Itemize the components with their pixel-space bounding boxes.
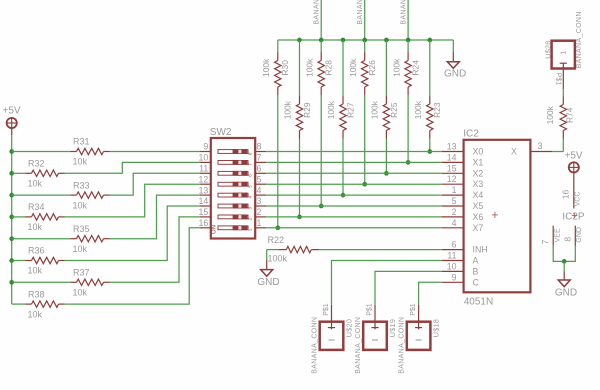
resistor R29	[299, 96, 301, 104]
wire	[12, 281, 71, 283]
svg-text:7: 7	[540, 239, 550, 244]
wire	[385, 139, 387, 174]
svg-text:BANANA_CONN: BANANA_CONN	[357, 0, 364, 25]
wire	[110, 173, 201, 195]
svg-text:C: C	[473, 277, 480, 287]
svg-text:R34: R34	[28, 202, 45, 212]
pin 6	[442, 249, 464, 251]
svg-text:IC2P: IC2P	[562, 211, 585, 222]
pin 3	[255, 205, 266, 207]
switch SW2 body	[211, 138, 255, 239]
wire	[110, 151, 201, 153]
svg-text:9: 9	[203, 142, 208, 152]
svg-text:100k: 100k	[370, 100, 380, 119]
svg-text:R30: R30	[280, 60, 290, 76]
junction	[427, 149, 432, 154]
pin 8	[255, 151, 266, 153]
svg-text:10: 10	[447, 261, 457, 271]
pin 15	[200, 216, 211, 218]
wire	[266, 250, 268, 260]
junction	[406, 38, 411, 43]
svg-text:R29: R29	[302, 102, 312, 118]
svg-text:BANANA_CONN: BANANA_CONN	[576, 11, 583, 68]
wire	[429, 40, 431, 96]
pin 16 VCC	[573, 173, 575, 209]
svg-text:3: 3	[538, 141, 543, 151]
svg-text:BANANA_CONN: BANANA_CONN	[401, 0, 408, 25]
switch element 5	[218, 193, 248, 197]
svg-text:R74: R74	[564, 107, 574, 123]
wire	[110, 195, 201, 239]
wire	[332, 261, 442, 305]
junction	[297, 38, 302, 43]
svg-text:X7: X7	[473, 223, 484, 233]
wire	[266, 151, 442, 153]
wire	[266, 183, 442, 185]
svg-text:BANANA_CONN: BANANA_CONN	[355, 317, 362, 374]
pin 9	[442, 281, 464, 283]
junction	[362, 38, 367, 43]
pin 9	[200, 151, 211, 153]
svg-text:14: 14	[199, 196, 209, 206]
pin 3	[530, 151, 552, 153]
junction	[341, 193, 346, 198]
wire	[12, 238, 71, 240]
svg-text:100k: 100k	[261, 58, 271, 77]
svg-text:2: 2	[452, 207, 457, 217]
wire left +5V bus	[11, 128, 13, 135]
pin 7	[255, 161, 266, 163]
junction	[319, 204, 324, 209]
svg-text:P$1: P$1	[323, 303, 330, 316]
svg-text:INH: INH	[473, 245, 488, 255]
wire top +5V bus	[278, 39, 454, 41]
wire	[12, 216, 26, 218]
svg-text:15: 15	[447, 163, 457, 173]
svg-text:4: 4	[452, 218, 457, 228]
wire	[319, 249, 441, 251]
connector U$19 pin	[374, 305, 376, 330]
switch element 4	[218, 182, 248, 186]
origin cross	[492, 214, 498, 216]
wire	[364, 40, 366, 52]
pin 4	[255, 194, 266, 196]
connector U$28 body	[552, 41, 575, 69]
svg-text:100k: 100k	[283, 100, 293, 119]
wire	[407, 95, 409, 162]
ground	[261, 270, 273, 277]
switch element 3	[218, 171, 248, 175]
wire	[12, 172, 26, 174]
junction	[9, 280, 14, 285]
pin 16	[200, 227, 211, 229]
svg-text:16: 16	[560, 190, 570, 200]
resistor R36	[26, 260, 32, 262]
svg-text:11: 11	[199, 164, 208, 174]
junction	[406, 160, 411, 165]
resistor R32	[26, 172, 32, 174]
svg-text:IC2: IC2	[463, 128, 479, 139]
svg-text:8: 8	[257, 142, 262, 152]
wire	[65, 206, 201, 261]
pad mark	[372, 339, 378, 341]
svg-text:2: 2	[257, 207, 262, 217]
svg-text:B: B	[473, 266, 479, 276]
wire	[65, 228, 201, 304]
svg-text:5: 5	[452, 196, 457, 206]
svg-text:R32: R32	[28, 159, 45, 169]
wire	[12, 194, 71, 196]
wire banana stub	[320, 0, 322, 40]
svg-text:VEE: VEE	[555, 228, 562, 242]
svg-text:BANANA_CONN: BANANA_CONN	[311, 317, 318, 374]
wire	[12, 303, 26, 305]
wire	[320, 95, 322, 206]
svg-text:GND: GND	[576, 227, 583, 243]
svg-text:100k: 100k	[326, 100, 336, 119]
wire	[266, 216, 442, 218]
switch element 2	[218, 161, 248, 165]
pin 15	[442, 172, 464, 174]
svg-text:100k: 100k	[545, 105, 555, 124]
pin 4	[442, 227, 464, 229]
svg-text:X: X	[511, 147, 517, 157]
wire	[429, 139, 431, 152]
svg-text:GND: GND	[444, 69, 466, 80]
pin 11	[442, 260, 464, 262]
pin 12	[442, 183, 464, 185]
svg-text:10k: 10k	[28, 222, 43, 232]
resistor R25	[385, 96, 387, 104]
svg-text:14: 14	[447, 152, 457, 162]
svg-text:GND: GND	[257, 277, 279, 288]
wire	[407, 40, 409, 52]
junction	[9, 258, 14, 263]
resistor R24	[407, 52, 409, 61]
switch element 1	[218, 150, 248, 154]
svg-text:6: 6	[257, 164, 262, 174]
svg-text:U$28: U$28	[544, 40, 553, 58]
svg-text:BANANA_CONN: BANANA_CONN	[398, 317, 405, 374]
svg-text:BANANA_CONN: BANANA_CONN	[314, 0, 321, 25]
junction	[9, 193, 14, 198]
junction	[9, 171, 14, 176]
wire	[299, 40, 301, 96]
svg-text:X4: X4	[473, 190, 484, 200]
svg-text:6: 6	[452, 240, 457, 250]
junction	[275, 225, 280, 230]
junction	[384, 171, 389, 176]
svg-text:R28: R28	[324, 60, 334, 76]
ground	[558, 280, 570, 287]
wire	[65, 184, 201, 217]
pin 12	[200, 183, 211, 185]
svg-text:1: 1	[452, 185, 457, 195]
resistor R30	[277, 52, 279, 61]
svg-text:7: 7	[257, 153, 262, 163]
junction	[427, 38, 432, 43]
pin 13	[442, 151, 464, 153]
junction	[297, 215, 302, 220]
svg-text:+5V: +5V	[3, 106, 21, 117]
junction	[9, 236, 14, 241]
svg-text:15: 15	[199, 207, 209, 217]
pin 7 VEE	[552, 226, 554, 246]
resistor R38	[26, 303, 32, 305]
connector U$20 pin	[331, 305, 333, 330]
svg-text:10k: 10k	[73, 157, 88, 167]
switch element 7	[218, 215, 248, 219]
pin 6	[255, 172, 266, 174]
op-amp IC2 body	[464, 140, 531, 292]
resistor R35	[71, 238, 77, 240]
junction	[562, 259, 567, 264]
wire	[266, 161, 442, 163]
svg-text:4051N: 4051N	[464, 296, 493, 307]
svg-text:P$1: P$1	[366, 303, 373, 316]
svg-text:1: 1	[257, 218, 262, 228]
svg-text:VCC: VCC	[574, 192, 581, 207]
svg-text:X6: X6	[473, 212, 484, 222]
svg-text:10k: 10k	[28, 309, 43, 319]
wire banana stub	[364, 0, 366, 40]
svg-text:100k: 100k	[304, 58, 314, 77]
pin 14	[442, 161, 464, 163]
svg-text:GND: GND	[555, 287, 577, 298]
svg-text:4: 4	[257, 185, 262, 195]
wire	[364, 95, 366, 184]
wire	[563, 261, 565, 271]
wire	[266, 227, 442, 229]
wire banana stub	[407, 0, 409, 40]
wire	[266, 172, 442, 174]
resistor R27	[342, 96, 344, 104]
wire bus to ground drop	[452, 40, 454, 52]
resistor R28	[320, 52, 322, 61]
svg-text:100k: 100k	[348, 58, 358, 77]
svg-text:X2: X2	[473, 168, 484, 178]
svg-text:X5: X5	[473, 201, 484, 211]
svg-text:100k: 100k	[268, 254, 288, 264]
pin 8 GND	[574, 226, 576, 246]
junction	[362, 182, 367, 187]
wire	[65, 162, 201, 173]
svg-text:+5V: +5V	[565, 151, 583, 162]
junction	[384, 38, 389, 43]
svg-text:A: A	[473, 256, 479, 266]
wire	[342, 40, 344, 96]
svg-text:U$18: U$18	[431, 319, 440, 337]
wire	[110, 217, 201, 282]
resistor R31	[71, 151, 77, 153]
svg-text:ON: ON	[212, 225, 218, 234]
svg-text:R36: R36	[28, 246, 45, 256]
wire	[267, 249, 279, 251]
wire	[277, 40, 279, 52]
ground	[447, 62, 459, 69]
svg-text:12: 12	[447, 174, 457, 184]
pin 1	[442, 194, 464, 196]
resistor R37	[71, 281, 77, 283]
svg-text:12: 12	[199, 174, 209, 184]
pin 10	[442, 270, 464, 272]
resistor R34	[26, 216, 32, 218]
svg-text:R33: R33	[73, 180, 90, 190]
svg-text:X0: X0	[473, 147, 484, 157]
connector U$19 body	[363, 322, 387, 350]
resistor R74	[562, 131, 564, 139]
connector U$18 pin	[418, 305, 420, 330]
svg-text:R22: R22	[268, 235, 285, 245]
svg-text:U$19: U$19	[388, 319, 397, 337]
svg-text:U$20: U$20	[344, 319, 353, 337]
pin 10	[200, 161, 211, 163]
svg-text:13: 13	[447, 142, 457, 152]
switch element 8	[218, 226, 248, 230]
svg-text:3: 3	[257, 196, 262, 206]
svg-text:1: 1	[561, 51, 568, 55]
resistor R22	[278, 249, 286, 251]
svg-text:R24: R24	[411, 60, 421, 76]
svg-text:P$1: P$1	[410, 303, 417, 316]
resistor R26	[364, 52, 366, 61]
svg-text:5: 5	[257, 174, 262, 184]
connector U$28 pin	[562, 63, 564, 89]
wire	[562, 89, 564, 96]
switch element 6	[218, 204, 248, 208]
junction	[319, 38, 324, 43]
wire	[320, 40, 322, 52]
svg-text:R31: R31	[73, 137, 90, 147]
wire	[553, 246, 575, 262]
wire	[342, 139, 344, 196]
pin 14	[200, 205, 211, 207]
wire	[12, 260, 26, 262]
svg-text:R35: R35	[73, 224, 90, 234]
svg-text:10k: 10k	[73, 200, 88, 210]
pin 2	[255, 216, 266, 218]
svg-text:9: 9	[452, 272, 457, 282]
svg-text:10k: 10k	[28, 179, 43, 189]
resistor R23	[429, 96, 431, 104]
pin 5	[255, 183, 266, 185]
pad mark	[416, 339, 422, 341]
svg-text:R37: R37	[73, 268, 90, 278]
connector U$18 body	[407, 322, 431, 350]
svg-text:R38: R38	[28, 289, 45, 299]
pin 13	[200, 194, 211, 196]
junction	[9, 215, 14, 220]
connector U$20 body	[320, 322, 344, 350]
svg-text:P$1: P$1	[554, 73, 561, 86]
svg-text:10k: 10k	[73, 288, 88, 298]
svg-text:R26: R26	[367, 60, 377, 76]
svg-text:10k: 10k	[73, 244, 88, 254]
svg-text:8: 8	[562, 237, 572, 242]
svg-text:16: 16	[199, 218, 209, 228]
junction	[341, 38, 346, 43]
wire	[552, 151, 563, 153]
wire	[12, 151, 71, 153]
svg-text:11: 11	[447, 251, 456, 261]
wire	[299, 139, 301, 217]
pad mark	[329, 339, 335, 341]
svg-text:100k: 100k	[391, 58, 401, 77]
pin 2	[442, 216, 464, 218]
svg-text:X1: X1	[473, 157, 484, 167]
wire	[419, 282, 442, 305]
pin 11	[200, 172, 211, 174]
pin 1	[255, 227, 266, 229]
wire	[277, 95, 279, 228]
svg-text:SW2: SW2	[210, 127, 232, 138]
wire	[385, 40, 387, 96]
pin 5	[442, 205, 464, 207]
svg-text:R23: R23	[432, 102, 442, 118]
wire	[266, 205, 442, 207]
resistor R33	[71, 194, 77, 196]
wire	[375, 271, 442, 304]
svg-text:13: 13	[199, 185, 209, 195]
svg-text:10k: 10k	[28, 266, 43, 276]
svg-text:10: 10	[199, 153, 209, 163]
svg-text:R27: R27	[345, 102, 355, 118]
svg-text:100k: 100k	[413, 100, 423, 119]
wire	[266, 194, 442, 196]
svg-text:R25: R25	[389, 102, 399, 118]
junction	[9, 149, 14, 154]
svg-text:X3: X3	[473, 179, 484, 189]
